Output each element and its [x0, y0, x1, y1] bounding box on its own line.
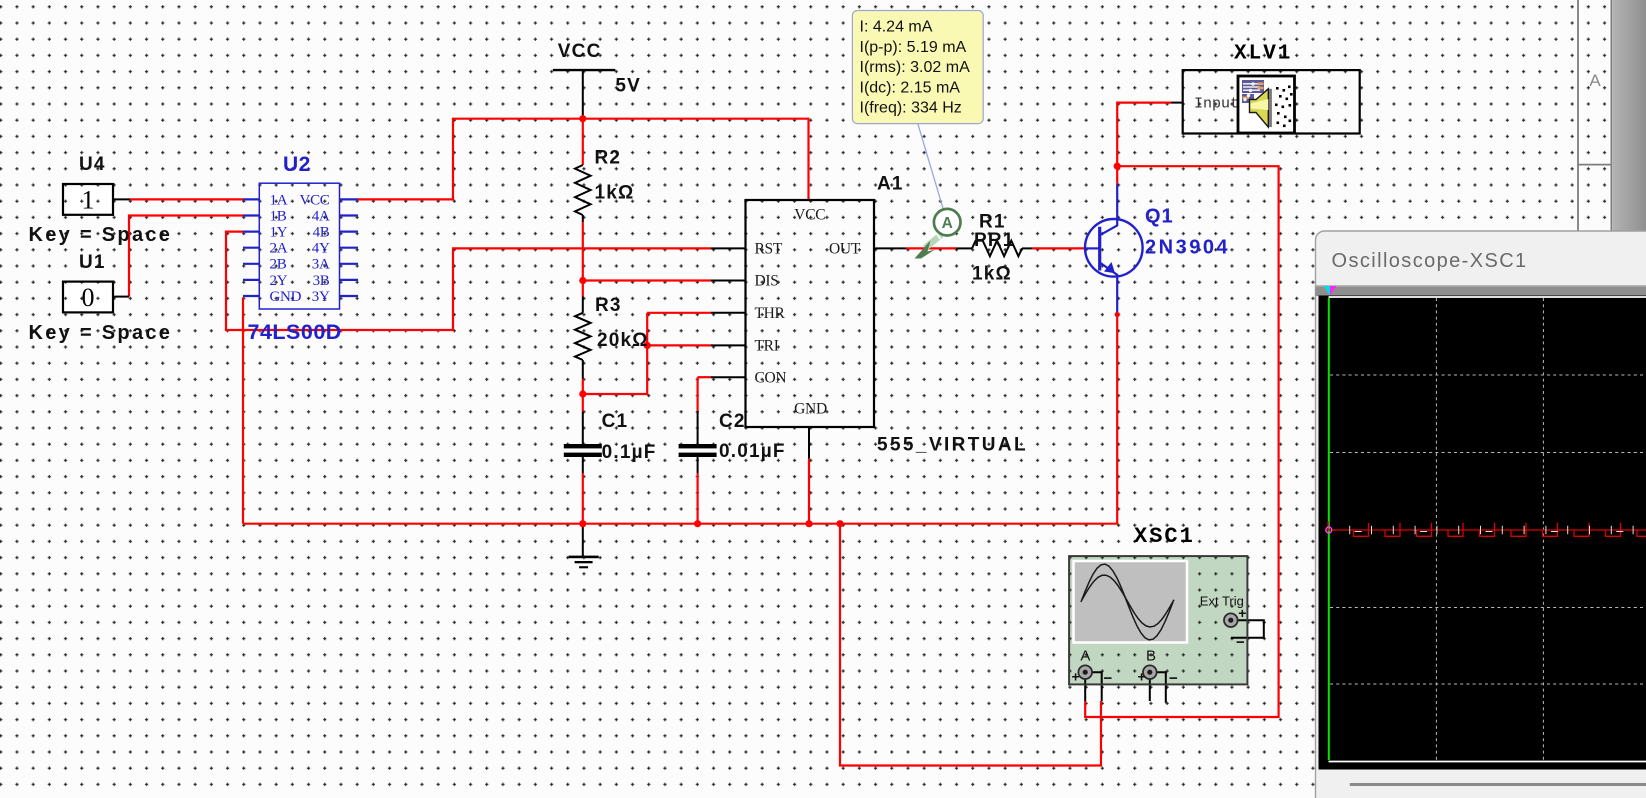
svg-text:XSC1: XSC1 [1134, 524, 1195, 549]
svg-text:R3: R3 [595, 295, 622, 316]
svg-text:3A: 3A [312, 257, 330, 273]
svg-text:I(freq): 334 Hz: I(freq): 334 Hz [860, 100, 962, 117]
svg-text:A: A [1589, 71, 1601, 90]
svg-text:+: + [1138, 669, 1146, 685]
svg-text:3B: 3B [313, 273, 330, 289]
svg-text:1B: 1B [270, 208, 287, 224]
svg-text:2Y: 2Y [270, 273, 288, 289]
svg-text:5V: 5V [615, 76, 641, 97]
svg-text:20kΩ: 20kΩ [597, 330, 649, 351]
svg-text:B: B [1146, 648, 1156, 665]
svg-text:0: 0 [82, 283, 95, 312]
svg-text:1kΩ: 1kΩ [972, 264, 1012, 285]
svg-text:Q1: Q1 [1145, 206, 1174, 228]
svg-text:C2: C2 [719, 411, 746, 432]
svg-text:TRI: TRI [755, 338, 779, 355]
svg-text:74LS00D: 74LS00D [248, 320, 342, 344]
svg-text:OUT: OUT [829, 241, 861, 258]
svg-text:0.1µF: 0.1µF [602, 442, 657, 463]
svg-text:−: − [1169, 670, 1178, 687]
svg-text:A: A [942, 215, 953, 232]
svg-text:1: 1 [82, 186, 95, 215]
svg-text:XLV1: XLV1 [1234, 43, 1292, 66]
svg-text:THR: THR [755, 305, 786, 322]
svg-text:Key = Space: Key = Space [29, 322, 173, 344]
svg-text:U2: U2 [283, 153, 311, 176]
svg-text:VCC: VCC [300, 192, 330, 208]
svg-text:Key = Space: Key = Space [29, 224, 173, 246]
svg-text:2A: 2A [270, 241, 288, 257]
svg-text:GND: GND [270, 289, 302, 305]
svg-text:A1: A1 [877, 174, 904, 195]
svg-text:DIS: DIS [755, 273, 779, 290]
svg-text:I(dc): 2.15 mA: I(dc): 2.15 mA [860, 79, 961, 96]
svg-text:+: + [1238, 605, 1246, 621]
svg-text:GND: GND [794, 401, 827, 418]
svg-text:CON: CON [755, 369, 787, 386]
svg-text:−: − [1236, 634, 1245, 651]
svg-text:4B: 4B [313, 225, 330, 241]
svg-text:2B: 2B [270, 257, 287, 273]
svg-text:I(p-p): 5.19 mA: I(p-p): 5.19 mA [860, 39, 967, 56]
svg-text:2N3904: 2N3904 [1145, 237, 1230, 259]
svg-text:1Y: 1Y [270, 225, 288, 241]
svg-text:3Y: 3Y [312, 289, 330, 305]
svg-text:VCC: VCC [558, 41, 602, 62]
svg-text:4A: 4A [312, 208, 330, 224]
svg-text:U1: U1 [79, 252, 106, 273]
svg-text:−: − [1104, 670, 1113, 687]
svg-text:C1: C1 [602, 411, 629, 432]
svg-text:555_VIRTUAL: 555_VIRTUAL [877, 435, 1028, 456]
svg-text:Oscilloscope-XSC1: Oscilloscope-XSC1 [1332, 250, 1528, 272]
svg-text:I: 4.24 mA: I: 4.24 mA [860, 19, 933, 36]
svg-text:A: A [1080, 648, 1090, 665]
svg-text:0.01µF: 0.01µF [719, 441, 786, 462]
svg-text:VCC: VCC [794, 207, 825, 224]
svg-text:+: + [1072, 669, 1080, 685]
svg-text:I(rms): 3.02 mA: I(rms): 3.02 mA [860, 59, 971, 76]
svg-text:RST: RST [755, 241, 783, 258]
svg-text:U4: U4 [79, 154, 106, 175]
svg-text:R2: R2 [595, 148, 622, 169]
svg-text:1A: 1A [270, 192, 288, 208]
svg-text:4Y: 4Y [312, 241, 330, 257]
svg-text:1kΩ: 1kΩ [595, 183, 635, 204]
svg-text:Input: Input [1194, 96, 1239, 113]
svg-text:PR1: PR1 [974, 230, 1015, 251]
